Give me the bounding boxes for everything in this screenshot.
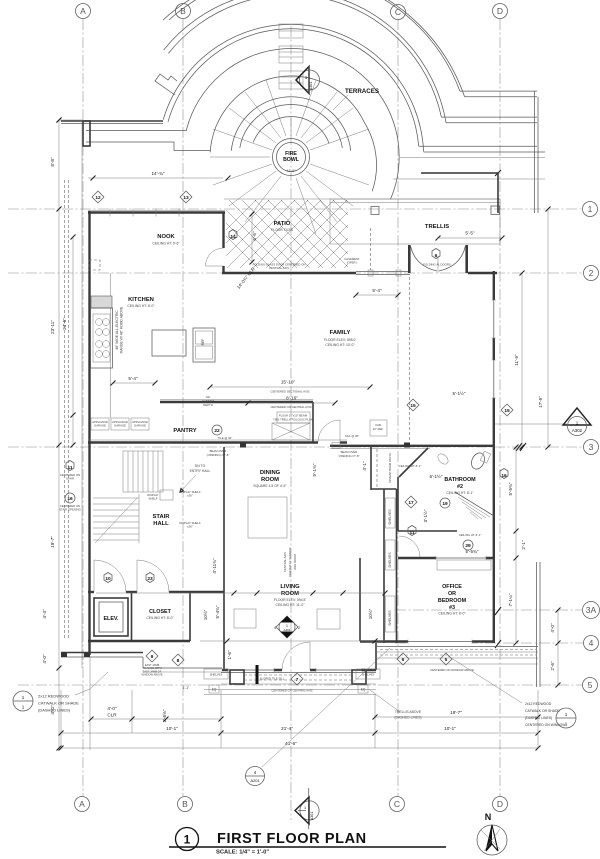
svg-text:19'-7": 19'-7" [450,710,462,715]
svg-text:7'-1¼": 7'-1¼" [508,593,513,606]
svg-text:CEILING HT: 8'-0": CEILING HT: 8'-0" [438,612,466,616]
bathroom 2 [398,448,494,531]
svg-text:AND ROOM: AND ROOM [293,554,297,570]
pantry east wall [312,402,314,442]
east wall window 1 [492,300,496,338]
elevator [94,598,128,636]
svg-text:DINING: DINING [260,470,281,476]
svg-text:5'-5¾": 5'-5¾" [466,549,479,554]
svg-text:2x12 REDWOOD: 2x12 REDWOOD [38,694,69,699]
grid bubble D bottom [493,797,508,812]
svg-text:OPENING ±7'-8": OPENING ±7'-8" [339,454,360,458]
svg-text:5'-1¾": 5'-1¾" [312,463,317,476]
living south windows [228,668,274,672]
svg-text:1: 1 [184,833,191,847]
svg-text:19: 19 [442,501,448,507]
living sofas [234,609,256,628]
terrace arc r81 [210,76,364,152]
svg-text:CEILING HT: 11'-0": CEILING HT: 11'-0" [276,603,306,607]
svg-text:A: A [80,6,86,16]
center stair ladder top [279,24,303,89]
keynote hexagon 11 bath [408,526,416,536]
keynote hexagon 6 at folding doors [432,249,440,259]
east wall window 2 [492,360,496,398]
svg-text:2'-6": 2'-6" [550,661,555,671]
living west partition [223,560,225,670]
range and ovens block [91,296,124,368]
svg-text:4'-0": 4'-0" [42,654,47,664]
svg-text:3A: 3A [586,605,597,615]
terrace walk lines right mid [419,145,537,147]
svg-text:FLOOR ELEV: 594.5': FLOOR ELEV: 594.5' [274,598,307,602]
patio hatch beams [188,198,414,268]
svg-text:C: C [394,799,400,809]
left dimension line [42,118,83,751]
SW porch walls [61,652,143,654]
kitchen dim 5-4 [113,382,155,384]
svg-text:1: 1 [22,695,25,700]
keynote diamond 7 porch [291,673,303,685]
svg-text:SPREAD BEAM WIDTH: SPREAD BEAM WIDTH [388,453,392,483]
svg-text:B: B [182,799,188,809]
folding door jambs [408,245,411,273]
svg-text:6'-5": 6'-5" [252,231,257,241]
svg-text:41'-6": 41'-6" [287,169,296,173]
svg-text:4: 4 [589,638,594,648]
svg-text:SILL @ 36": SILL @ 36" [345,434,359,438]
office south wall [360,640,494,642]
svg-text:17'-5": 17'-5" [538,396,543,408]
svg-text:10'-1": 10'-1" [166,726,178,731]
svg-text:1'-1": 1'-1" [183,686,189,690]
folding door leaves [411,246,438,271]
section circle 4 A201 [246,648,391,786]
svg-text:6: 6 [435,253,438,259]
grid line A vertical [75,4,91,812]
svg-text:15'-10": 15'-10" [281,380,296,385]
dashed trellis beam lines [370,228,372,270]
EQ boxes [209,685,219,693]
svg-text:A301: A301 [310,812,314,820]
svg-text:10½": 10½" [367,608,373,619]
grid break ticks right [495,607,501,648]
svg-text:4'-4": 4'-4" [42,609,47,619]
terrace arc pair r181/186 [169,0,460,91]
svg-text:CATWALK OR SHADE: CATWALK OR SHADE [38,701,79,706]
bathroom west wall [397,477,399,531]
svg-text:GARAGE: GARAGE [134,424,146,428]
grid3 break ticks [516,443,526,451]
title block [169,828,446,856]
section cut line A301 vertical [290,26,292,820]
svg-text:FAMILY: FAMILY [330,330,351,336]
terrace walk lines right lower [421,172,498,174]
keynote hexagon 16 [500,469,508,479]
svg-text:CENTRAL AXIS: CENTRAL AXIS [283,552,287,572]
nook door swing [206,248,224,266]
svg-text:D: D [497,799,503,809]
grid bubble B top [176,4,191,19]
svg-text:±36": ±36" [187,494,193,498]
svg-text:ENTRY HALL: ENTRY HALL [190,469,211,473]
svg-text:1: 1 [565,722,568,727]
svg-text:#2: #2 [457,484,463,490]
svg-text:4'-0": 4'-0" [107,706,117,711]
keynote diamond 5 [440,653,452,665]
terrace walk lines right upper-mid [441,116,537,118]
svg-text:5'-1½": 5'-1½" [430,473,443,479]
keynote diamond 12 [92,191,104,203]
family north wall west segment [222,272,356,274]
svg-text:CEILING HT: 8'-1": CEILING HT: 8'-1" [459,533,482,537]
grid bubble C bottom [390,797,405,812]
svg-text:4'-11¾": 4'-11¾" [212,558,217,574]
trellis post east [491,206,500,215]
grid line 3 horizontal [8,440,599,455]
family north wall east segment [468,272,497,274]
svg-text:3: 3 [589,442,594,452]
appliance garage boxes [91,418,149,430]
keynote circle 22 [212,425,222,435]
west catwalk dashed lines [64,180,66,640]
svg-text:1'-6": 1'-6" [227,650,232,660]
dashed beam line [376,449,378,489]
svg-text:OFFICE: OFFICE [442,584,462,590]
bathroom sink corner [399,448,428,477]
stair hall lower flight treads [93,494,139,543]
svg-text:BOWL: BOWL [283,157,300,163]
grid bubble B bottom [178,797,193,812]
svg-text:8'-8": 8'-8" [50,157,55,167]
svg-text:TIES TRELLISTO/LOGIC PLAN: TIES TRELLISTO/LOGIC PLAN [273,418,313,422]
svg-text:48" WIDE ALL-ELECTRIC: 48" WIDE ALL-ELECTRIC [115,310,119,350]
svg-text:B: B [180,6,186,16]
svg-text:CENTERED SECTIONAL AXIS: CENTERED SECTIONAL AXIS [271,390,310,394]
SW porch pier blocks [61,653,67,658]
svg-text:23: 23 [147,576,153,582]
terrace arc r52 [240,105,343,148]
west terrace pier [83,121,90,146]
svg-text:TRELLIS ABOVE: TRELLIS ABOVE [395,710,422,714]
office south window [408,640,472,644]
svg-text:N: N [485,812,492,822]
svg-text:5'-4": 5'-4" [128,376,138,381]
shelves box east [356,669,380,679]
east catwalk edge pair [536,562,538,687]
svg-text:FOLDING AL DOORS: FOLDING AL DOORS [423,263,451,267]
top left dim tick corner [57,118,62,123]
svg-text:1: 1 [588,204,593,214]
keynote diamond 15 [407,399,419,411]
dining ceiling square [248,497,287,538]
svg-text:FLOOR ELEV: 595.0': FLOOR ELEV: 595.0' [324,338,357,342]
svg-text:HALL: HALL [153,521,169,527]
svg-text:SHELF: SHELF [148,497,157,501]
shelf wall top [371,488,397,490]
fire bowl circles [273,139,310,176]
svg-text:(DASHED LINES): (DASHED LINES) [38,708,71,713]
grid line 5 horizontal [18,678,598,693]
svg-text:5'-5¾": 5'-5¾" [508,482,513,495]
toilet [469,451,487,471]
keynote diamond 13 [180,191,192,203]
terrace arc pair r155/160 [168,0,441,117]
svg-text:CENTER OF WINDOW: CENTER OF WINDOW [288,547,292,577]
svg-text:1: 1 [565,712,568,717]
nook dashed floor box [89,260,100,270]
svg-text:4'-1": 4'-1" [362,461,367,471]
svg-text:14: 14 [230,234,236,240]
keynote circle 29 [463,540,473,550]
folding door dim 5-5 [438,237,502,239]
svg-text:2x12 REDWOOD: 2x12 REDWOOD [525,702,552,706]
svg-text:SQUARE 4.5 OF 4'-6": SQUARE 4.5 OF 4'-6" [253,484,287,488]
svg-text:2: 2 [589,268,594,278]
svg-text:21'-4": 21'-4" [281,726,293,731]
svg-text:22: 22 [214,428,220,434]
svg-text:ROOM: ROOM [261,477,279,483]
svg-text:24'-6": 24'-6" [62,318,67,330]
terrace east edge vertical pair [534,91,536,213]
svg-text:15: 15 [410,403,416,409]
svg-text:ROOM: ROOM [281,591,299,597]
svg-text:RANGE W/ 48" HOOD ABOVE: RANGE W/ 48" HOOD ABOVE [120,306,124,353]
keynote diamond 9 [146,650,158,662]
shelf niche 2 [386,540,396,570]
svg-text:7: 7 [296,677,299,683]
grid line 2 horizontal [8,266,599,281]
entry wall with doors [88,591,94,593]
svg-text:(OPENING) ±7'-8": (OPENING) ±7'-8" [207,453,230,457]
shelves box west [204,669,228,679]
terrace arc pair r128/133 [168,29,419,146]
keynote circle 19 [440,498,450,508]
stair hall east partition [223,447,225,560]
shelf niche 1 [386,498,396,528]
front door swing [282,642,310,670]
office north window [436,556,486,560]
terrace arc r40 [253,117,329,144]
svg-text:ELEV.: ELEV. [103,616,119,622]
west exterior wall [88,211,90,655]
svg-text:A301: A301 [309,82,313,90]
svg-text:CATWALK OR SHADE: CATWALK OR SHADE [525,709,560,713]
office north wall [398,557,494,559]
grid line C vertical [390,5,406,812]
right dim line family [514,207,551,450]
svg-text:CEILING HT: 8'-0": CEILING HT: 8'-0" [146,616,174,620]
west deck edge line [81,121,83,668]
svg-text:5'-5": 5'-5" [465,231,475,236]
svg-text:NOOK: NOOK [157,234,175,240]
grid bubble D top [493,4,508,19]
svg-text:PANTRY: PANTRY [173,428,196,434]
display shelf niche upper [160,490,173,500]
kitchen island block 2 refrigerator [193,328,215,362]
family north dim 5-4 [356,294,398,296]
svg-text:6: 6 [402,657,405,663]
svg-text:SHELVES: SHELVES [388,552,392,568]
left redwood catwalk note [13,672,108,713]
svg-text:5'-4¾": 5'-4¾" [215,605,220,618]
interior elevation marker A401 [274,616,300,638]
nook top dim 14-3/4 [88,177,223,179]
svg-text:A201: A201 [250,778,260,783]
pantry door swing [318,420,340,442]
svg-text:±36": ±36" [187,525,193,529]
closet [88,592,190,641]
office front terrace steps [377,647,538,665]
grid bubble A bottom [75,797,90,812]
keynote hexagon 14 [229,230,237,240]
svg-text:SHELVES: SHELVES [362,673,375,677]
office terrace dashed [380,649,536,651]
shelf wall west line [383,489,385,643]
svg-text:3'-1½": 3'-1½" [422,509,428,522]
svg-text:STAIR: STAIR [153,514,171,520]
grid line 4 horizontal [395,636,599,651]
svg-text:GARAGE: GARAGE [94,424,106,428]
bath door swing [399,536,420,557]
svg-text:1: 1 [304,806,306,810]
svg-text:#3: #3 [449,605,455,611]
section marker A301 bottom [295,788,319,829]
svg-text:12: 12 [95,195,101,201]
family room dim cluster [207,380,410,458]
svg-text:10½": 10½" [202,609,208,620]
svg-text:EQ: EQ [212,688,217,692]
svg-text:A302: A302 [572,428,583,433]
trellis wedge stub upper left [155,74,177,95]
svg-text:2: 2 [298,626,300,630]
svg-text:OR: OR [448,591,456,597]
kitchen south wall [88,441,318,443]
svg-text:CEILING HT: 8'-0": CEILING HT: 8'-0" [127,304,155,308]
svg-text:GARAGE: GARAGE [114,424,126,428]
svg-text:13: 13 [183,195,189,201]
nook patio divider wall [222,212,224,248]
corner shower [455,492,494,516]
svg-text:SCALE: 1/4" = 1'-0": SCALE: 1/4" = 1'-0" [216,850,269,856]
interior dim string living [96,558,388,660]
svg-text:5'-4": 5'-4" [372,288,382,293]
bathroom north wall [330,445,494,447]
svg-text:16: 16 [501,473,507,479]
bathroom south wall [398,530,457,532]
svg-text:19'-7": 19'-7" [50,536,55,548]
svg-text:17: 17 [408,500,414,506]
left inner dimension line [62,235,76,448]
keynote diamond 15 right [501,404,513,416]
svg-text:DN TO: DN TO [195,464,206,468]
bottom dimension lines [59,657,541,751]
nook north wall [88,211,225,213]
grid line 3A horizontal [395,602,600,619]
jamb section bar [256,665,259,684]
svg-text:2'-6⅝": 2'-6⅝" [162,709,167,722]
keynote hexagon 10 [104,573,112,583]
svg-text:5: 5 [588,680,593,690]
svg-text:TILE @ 36": TILE @ 36" [218,436,232,440]
patio trellis outline [224,199,500,244]
grid bubble C top [391,5,406,20]
stair hall upper flight treads [123,451,163,492]
svg-text:KITCHEN: KITCHEN [128,297,154,303]
right redwood catwalk note [448,656,576,728]
dining east wall upper [370,447,372,490]
svg-text:(DASHED LINES): (DASHED LINES) [525,716,552,720]
door swing keynote 23 [137,560,169,592]
svg-text:5: 5 [445,657,448,663]
svg-text:2'-1": 2'-1" [521,540,526,550]
svg-text:23'-11": 23'-11" [50,320,55,334]
svg-text:SHELVES: SHELVES [388,509,392,525]
trellis post west [371,207,379,215]
terrace walk lines right top [460,90,537,92]
shelf niche 3 [386,596,396,632]
svg-text:10: 10 [105,576,111,582]
section marker A302 right [495,408,591,436]
keynote diamond 6 [397,653,409,665]
svg-text:CLOSET: CLOSET [149,609,172,615]
family north window band [356,271,410,273]
grid line B vertical [176,4,193,812]
svg-text:10'-1": 10'-1" [444,726,456,731]
svg-text:24" REF: 24" REF [373,427,384,431]
svg-text:STAIR: STAIR [66,477,74,481]
svg-text:A401: A401 [283,628,290,632]
svg-text:CEILING HT: 10'-0": CEILING HT: 10'-0" [325,343,355,347]
kitchen island block 1 [152,330,186,356]
svg-text:BATHROOM: BATHROOM [444,477,476,483]
terraces arc group centered at fire bowl [61,0,545,668]
north arrow [477,812,507,855]
svg-text:16: 16 [67,496,73,502]
east exterior wall [493,271,495,643]
svg-text:14'-¾": 14'-¾" [152,171,165,176]
svg-text:8: 8 [177,658,180,664]
shelf wall east line [396,489,398,643]
section marker A301 top [296,66,320,94]
svg-text:TERRACES: TERRACES [345,88,379,95]
svg-text:15: 15 [504,408,510,414]
terrace arc r108 [186,49,399,200]
svg-text:FLOOR TILES: FLOOR TILES [271,228,294,232]
svg-text:CEILING HT: 9'-6": CEILING HT: 9'-6" [152,242,180,246]
right dim 4-0 [550,608,561,688]
svg-text:BEDROOM: BEDROOM [438,598,467,604]
svg-text:5'-1½": 5'-1½" [453,390,466,396]
svg-text:11: 11 [409,530,414,536]
svg-text:TRELLIS: TRELLIS [425,224,449,230]
front porch steps [204,665,380,695]
living south wall [222,669,282,671]
svg-text:CENTERED ON CENTRAL AXIS: CENTERED ON CENTRAL AXIS [270,405,311,409]
grid bubble A top [76,4,91,19]
terrace arc r60 [231,97,350,151]
svg-text:PATIO: PATIO [274,221,291,227]
svg-text:1: 1 [22,705,25,710]
west terrace walls [61,120,163,122]
left keynote hexagon 11 [66,461,74,471]
svg-text:8'-16": 8'-16" [286,396,298,401]
window in wall at dining NE [332,443,340,449]
keynote diamond 17 [405,496,417,508]
left keynote circle 16 [65,493,75,503]
grid line 1 horizontal [8,202,598,217]
svg-text:4'-0": 4'-0" [550,623,555,633]
svg-text:FIRST FLOOR PLAN: FIRST FLOOR PLAN [217,831,367,847]
